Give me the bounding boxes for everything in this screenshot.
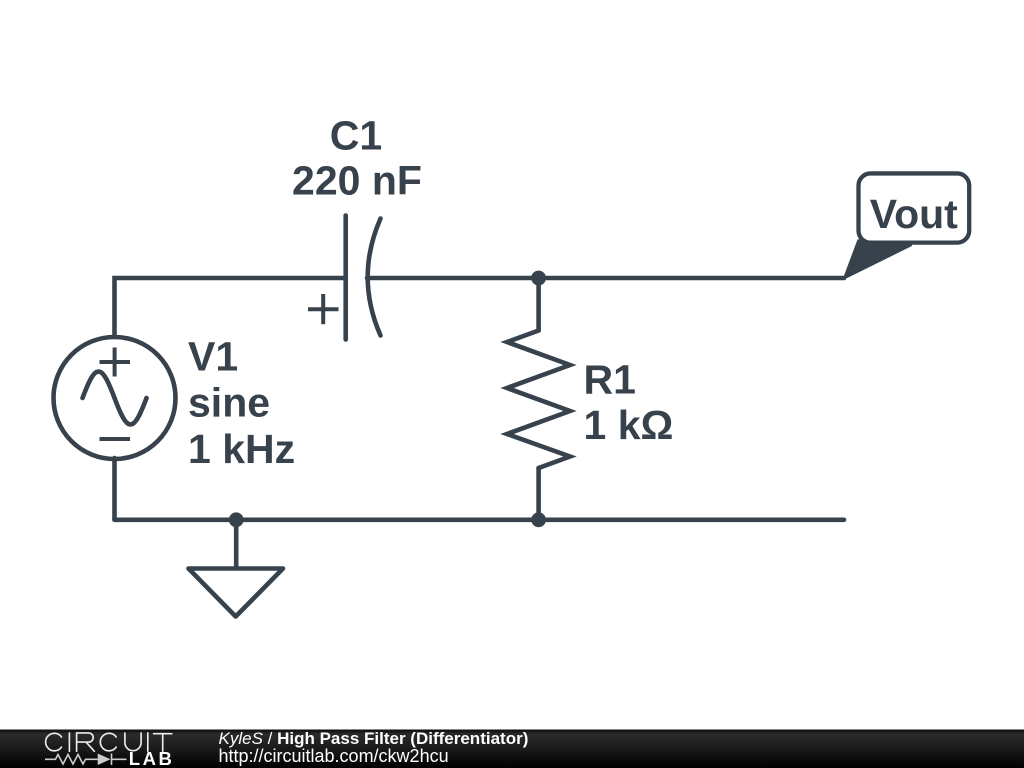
logo CIRCUIT drawn monoline bbox=[46, 733, 172, 751]
V1 plus sign bbox=[100, 348, 131, 377]
C1 plus sign bbox=[308, 294, 339, 324]
ground symbol bbox=[189, 569, 284, 617]
node: bottom junction at R1 bbox=[531, 512, 546, 527]
node: top junction at C1/R1/Vout bbox=[531, 271, 546, 286]
capacitor C1 bbox=[308, 216, 381, 340]
wire: C1 right plate to Vout end bbox=[367, 276, 844, 281]
svg-text:sine: sine bbox=[188, 380, 270, 426]
logo diode triangle bbox=[98, 754, 111, 766]
wire: V1 bottom lead bbox=[112, 458, 117, 520]
wire: resistor bottom lead bbox=[536, 468, 541, 520]
svg-text:1 kHz: 1 kHz bbox=[188, 426, 295, 472]
flag Vout bubble bbox=[859, 173, 970, 242]
flag Vout pointer bbox=[844, 240, 911, 278]
svg-text:http://circuitlab.com/ckw2hcu: http://circuitlab.com/ckw2hcu bbox=[219, 746, 449, 766]
C1 right curved plate bbox=[368, 219, 381, 336]
logo resistor-diode squiggle bbox=[45, 754, 127, 766]
wire: V1 top to C1 left plate bbox=[115, 278, 345, 337]
svg-text:220 nF: 220 nF bbox=[292, 157, 422, 203]
svg-text:C1: C1 bbox=[330, 113, 382, 159]
svg-text:R1: R1 bbox=[584, 356, 636, 402]
svg-text:LAB: LAB bbox=[129, 748, 175, 768]
wire: resistor top lead bbox=[536, 278, 541, 331]
wire: ground net bottom bbox=[115, 517, 845, 522]
C1 left plate bbox=[343, 216, 348, 340]
resistor R1 bbox=[507, 331, 570, 469]
svg-text:V1: V1 bbox=[188, 334, 238, 380]
node: ground junction bbox=[229, 512, 244, 527]
wire: ground stub bbox=[234, 520, 239, 568]
svg-text:Vout: Vout bbox=[870, 191, 958, 237]
V1 minus sign bbox=[100, 437, 131, 441]
svg-text:1 kΩ: 1 kΩ bbox=[584, 402, 674, 448]
voltage source V1 bbox=[54, 337, 176, 459]
